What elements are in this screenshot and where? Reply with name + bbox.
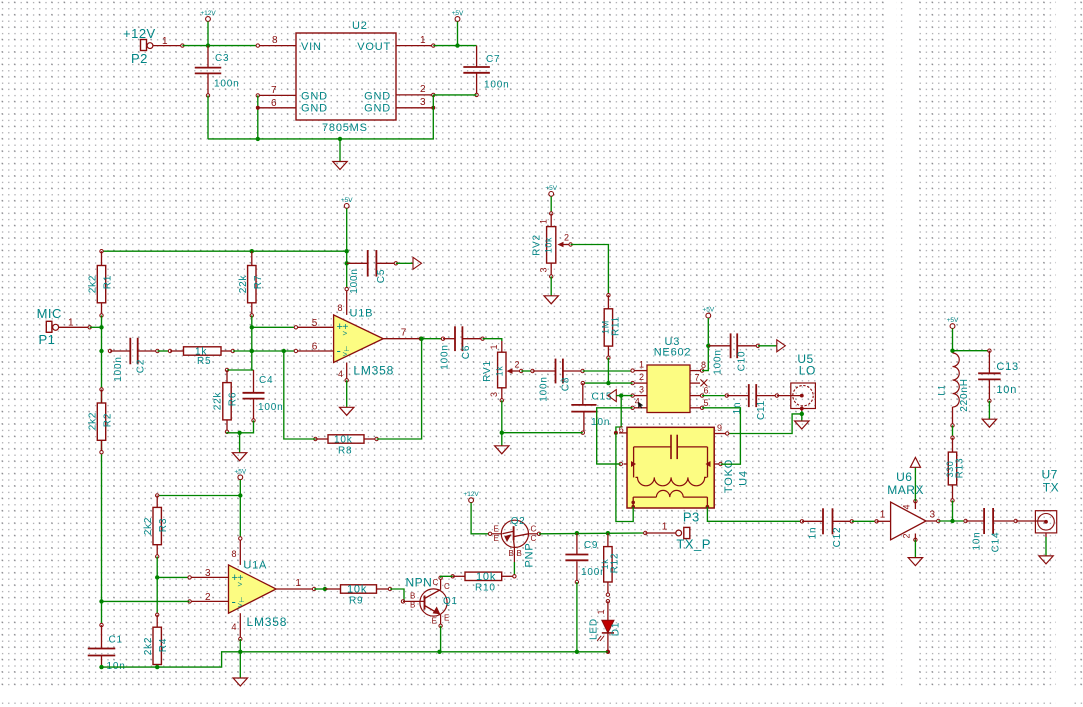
ground — [908, 558, 922, 566]
transformer U4 TOKO — [627, 427, 714, 508]
junction — [575, 531, 579, 535]
junction — [950, 519, 954, 523]
ground — [544, 296, 558, 304]
power arrow (U6 pin4) — [914, 467, 916, 501]
svg-text:3: 3 — [420, 97, 426, 108]
svg-text:R4: R4 — [158, 638, 169, 652]
wire — [914, 540, 916, 558]
wire — [952, 425, 954, 437]
wire — [346, 380, 348, 407]
wire — [157, 576, 189, 578]
svg-text:7: 7 — [695, 373, 700, 383]
junction — [606, 650, 610, 654]
pin 8 — [239, 539, 241, 565]
svg-text:LO: LO — [799, 364, 816, 378]
capacitor C1 10n — [100, 623, 103, 626]
resistor R12 1k — [607, 533, 609, 546]
wire — [616, 396, 621, 433]
pin 5 — [296, 326, 334, 328]
capacitor C5 100n — [347, 262, 368, 264]
wire — [607, 358, 609, 383]
svg-text:100n: 100n — [440, 344, 451, 369]
svg-text:C3: C3 — [215, 53, 229, 64]
pin 1 VOUT — [396, 45, 433, 47]
svg-text:Q2: Q2 — [511, 516, 526, 527]
power +5V (U3) — [706, 313, 711, 318]
wire — [208, 95, 433, 139]
junction — [250, 349, 254, 353]
svg-text:+5V: +5V — [947, 317, 959, 324]
pin 6 — [296, 350, 334, 352]
svg-text:100n: 100n — [113, 356, 124, 381]
svg-text:GND: GND — [301, 103, 328, 115]
resistor R13 330 — [951, 436, 954, 439]
wire — [182, 45, 257, 47]
junction — [500, 431, 504, 435]
wire — [101, 315, 103, 327]
ground — [333, 162, 347, 170]
svg-text:10k: 10k — [347, 584, 367, 596]
junction — [250, 325, 254, 329]
wire pin1 to pin6 column — [616, 433, 633, 522]
svg-text:>: > — [343, 329, 348, 338]
svg-text:330: 330 — [945, 461, 955, 478]
connector P3 TX_P — [644, 531, 647, 534]
svg-text:C12: C12 — [832, 527, 843, 548]
wire — [501, 433, 503, 446]
wire — [501, 400, 503, 432]
svg-text:1M: 1M — [601, 320, 611, 334]
amplifier U6 MARX — [875, 520, 878, 523]
wire — [852, 520, 877, 522]
svg-text:2: 2 — [205, 592, 211, 603]
wire — [433, 94, 476, 96]
junction — [419, 337, 423, 341]
junction — [606, 531, 610, 535]
wire — [457, 21, 459, 45]
svg-text:2: 2 — [420, 84, 426, 95]
svg-text:6: 6 — [619, 425, 624, 435]
wire — [252, 326, 296, 328]
svg-text:MARX: MARX — [887, 483, 924, 497]
svg-text:10n: 10n — [996, 384, 1017, 396]
svg-text:>: > — [238, 580, 243, 589]
wire +5V to pin8 — [239, 496, 241, 539]
pin 8 — [346, 289, 348, 315]
junction — [282, 349, 286, 353]
junction — [250, 349, 254, 353]
capacitor C11 1n — [702, 395, 727, 397]
svg-text:Q1: Q1 — [443, 596, 458, 607]
wire U7 gnd — [1045, 533, 1047, 537]
resistor R7 22k — [251, 251, 253, 265]
wire — [571, 245, 609, 296]
power +5V — [455, 17, 460, 22]
svg-text:2k2: 2k2 — [88, 412, 99, 431]
svg-text:U7: U7 — [1042, 468, 1058, 482]
svg-text:2k2: 2k2 — [143, 517, 154, 536]
wire — [239, 433, 241, 453]
trimpot RV2 10k — [549, 192, 554, 197]
svg-text:C11: C11 — [756, 400, 767, 420]
svg-text:B: B — [410, 601, 415, 610]
svg-text:2: 2 — [902, 533, 912, 538]
svg-text:1: 1 — [162, 36, 168, 47]
wire emitter — [440, 626, 442, 652]
svg-text:NE602: NE602 — [654, 347, 692, 359]
svg-text:B: B — [509, 549, 514, 558]
svg-text:3: 3 — [639, 385, 644, 395]
svg-text:U6: U6 — [896, 470, 912, 484]
wire Q2 collector — [539, 532, 645, 535]
svg-text:6: 6 — [271, 98, 277, 109]
wire top rail — [102, 250, 347, 252]
wire — [952, 329, 954, 354]
capacitor C15 10n — [581, 381, 584, 384]
junction — [99, 665, 103, 669]
capacitor C9 100n — [576, 533, 578, 554]
ground — [233, 678, 247, 686]
ground — [1039, 556, 1053, 564]
svg-text:+5V: +5V — [234, 468, 246, 475]
junction — [155, 665, 159, 669]
svg-text:C: C — [444, 582, 450, 591]
junction — [238, 493, 242, 497]
svg-text:10k: 10k — [334, 435, 353, 446]
pin 2 — [633, 382, 647, 384]
ground — [495, 446, 509, 454]
capacitor C2 100n — [108, 349, 111, 352]
svg-text:+5V: +5V — [452, 10, 464, 17]
wire bottom rail — [102, 652, 608, 667]
svg-text:1: 1 — [880, 510, 886, 521]
svg-text:220nH: 220nH — [959, 378, 970, 411]
resistor R1 2k2 — [100, 250, 103, 253]
wire — [251, 315, 253, 327]
wire — [758, 345, 777, 347]
hier label arrow — [777, 340, 786, 352]
wire U5 to U4 pin9 — [727, 414, 802, 434]
ground — [340, 407, 354, 415]
svg-text:R13: R13 — [955, 458, 966, 479]
wire — [502, 432, 583, 434]
power +5V (U1B) — [344, 204, 349, 209]
resistor R8 10k — [314, 437, 317, 440]
ground — [232, 453, 246, 461]
svg-text:+12V: +12V — [200, 10, 216, 17]
wire — [390, 589, 404, 601]
hier label arrow — [413, 257, 422, 269]
pin 6 — [690, 395, 702, 397]
wire pin4 to U4 pin5 — [597, 408, 633, 464]
pin 2 GND — [396, 94, 433, 96]
transistor Q1 NPN — [401, 600, 404, 603]
svg-text:8: 8 — [272, 35, 278, 46]
power +5V (L1) — [950, 324, 955, 329]
svg-text:4: 4 — [902, 504, 912, 509]
wire — [938, 520, 965, 522]
svg-text:2k2: 2k2 — [143, 637, 154, 656]
svg-text:U1A: U1A — [243, 560, 267, 572]
wire output U1A to R9 — [314, 588, 328, 590]
svg-text:8: 8 — [338, 303, 343, 313]
capacitor C14 10n — [964, 519, 967, 522]
svg-text:R8: R8 — [338, 446, 352, 457]
svg-text:LM358: LM358 — [247, 615, 288, 629]
svg-text:TX_P: TX_P — [676, 537, 711, 552]
pin 2 of U4 — [706, 497, 708, 507]
wire — [157, 350, 170, 352]
resistor R4 2k2 — [156, 613, 159, 616]
capacitor C3 100n — [207, 46, 209, 68]
pin 7 of U4 — [714, 463, 720, 465]
resistor R11 1M — [607, 294, 610, 297]
resistor R10 10k — [451, 575, 454, 578]
pin 4 — [239, 613, 241, 639]
svg-text:R7: R7 — [253, 275, 264, 289]
pin 2 — [190, 600, 229, 602]
junction — [99, 349, 103, 353]
svg-text:VOUT: VOUT — [357, 41, 391, 53]
connector U7 TX — [1016, 520, 1046, 522]
svg-text:R2: R2 — [103, 413, 114, 427]
svg-text:C: C — [531, 525, 537, 534]
pin 9 of U4 — [714, 433, 727, 435]
svg-text:R1: R1 — [103, 275, 114, 289]
wire output — [421, 338, 443, 340]
junction — [575, 650, 579, 654]
wire pin2 down-right — [707, 507, 802, 522]
wire U3 pin5 to U4 pin7 — [702, 408, 740, 464]
pin 3 — [190, 576, 229, 578]
ground — [795, 421, 809, 429]
transistor Q2 PNP — [501, 520, 528, 547]
junction — [345, 261, 349, 265]
svg-text:7: 7 — [401, 328, 407, 339]
pin 7 output — [383, 338, 421, 340]
wire — [156, 557, 158, 615]
pin 5 — [690, 407, 702, 409]
junction — [237, 431, 241, 435]
capacitor C12 1n — [800, 520, 803, 523]
svg-text:10k: 10k — [476, 571, 496, 583]
svg-text:R3: R3 — [158, 518, 169, 532]
wire collector — [441, 576, 453, 577]
resistor R9 10k — [325, 588, 341, 590]
svg-text:LED: LED — [589, 618, 600, 640]
op-amp U1A LM358 — [229, 565, 277, 613]
pin 5 of U4 — [624, 463, 628, 465]
svg-text:1: 1 — [662, 522, 668, 533]
pin 7 no-connect — [690, 382, 700, 384]
capacitor C6 100n — [441, 337, 444, 340]
wire — [233, 350, 296, 352]
svg-text:C9: C9 — [584, 540, 598, 551]
power +5V (U1A) — [238, 475, 243, 480]
svg-text:R9: R9 — [349, 596, 363, 607]
op-amp U1B LM358 — [334, 315, 384, 363]
junction — [950, 349, 954, 353]
junction — [437, 650, 441, 654]
svg-text:E: E — [494, 534, 499, 543]
wire — [239, 480, 241, 496]
svg-text:+12V: +12V — [123, 26, 156, 41]
wire — [702, 318, 708, 371]
pin 3 output — [926, 520, 938, 522]
wire — [346, 208, 348, 289]
pin 8 VIN — [258, 45, 296, 47]
svg-text:R5: R5 — [197, 356, 211, 367]
svg-text:U2: U2 — [352, 20, 368, 32]
svg-text:1n: 1n — [808, 527, 819, 540]
svg-text:10n: 10n — [972, 531, 983, 550]
svg-text:+5V: +5V — [545, 185, 557, 192]
wire left column — [101, 327, 103, 625]
svg-text:C6: C6 — [461, 345, 472, 359]
junction — [238, 650, 242, 654]
capacitor C7 100n — [476, 46, 478, 67]
pin 4 — [633, 407, 647, 409]
svg-text:2: 2 — [515, 360, 520, 370]
wire — [550, 276, 552, 295]
junction — [345, 249, 349, 253]
svg-text:C: C — [433, 578, 439, 587]
junction — [250, 249, 254, 253]
wire pin3 — [616, 395, 632, 397]
svg-text:>: > — [238, 601, 243, 610]
svg-text:C2: C2 — [136, 359, 147, 373]
junction — [455, 43, 459, 47]
wire — [988, 401, 990, 419]
svg-text:4: 4 — [232, 622, 237, 632]
junction — [706, 344, 710, 348]
wire — [90, 326, 102, 328]
svg-text:9: 9 — [717, 423, 722, 433]
svg-text:3: 3 — [205, 568, 211, 579]
wire — [576, 582, 578, 652]
svg-text:LM358: LM358 — [353, 364, 394, 378]
junction — [206, 43, 210, 47]
wire base — [513, 562, 515, 576]
wire — [207, 95, 209, 138]
wire — [157, 495, 240, 497]
wire feedback right — [377, 339, 422, 439]
svg-text:5: 5 — [704, 398, 709, 408]
svg-text:2: 2 — [564, 233, 569, 243]
wire — [227, 420, 254, 432]
wire — [583, 370, 633, 372]
resistor R5 1k — [168, 349, 171, 352]
svg-text:100n: 100n — [258, 402, 283, 413]
svg-text:E: E — [444, 614, 449, 623]
capacitor C4 100n — [253, 370, 255, 393]
svg-text:1: 1 — [596, 609, 606, 614]
mixer U3 NE602 — [647, 365, 690, 413]
pin 3 GND — [396, 107, 433, 109]
capacitor C8 100n — [531, 369, 534, 372]
pin 2 of U6 — [914, 538, 917, 541]
junction — [800, 412, 804, 416]
svg-text:R11: R11 — [611, 316, 622, 336]
junction — [338, 137, 342, 141]
svg-text:8: 8 — [701, 360, 706, 370]
svg-text:10n: 10n — [591, 417, 610, 428]
svg-text:C10: C10 — [737, 351, 748, 372]
svg-text:B: B — [410, 592, 415, 601]
junction — [99, 599, 103, 603]
wire — [252, 327, 254, 370]
svg-text:C5: C5 — [376, 269, 387, 283]
svg-text:1: 1 — [539, 219, 549, 224]
svg-text:R6: R6 — [228, 392, 239, 406]
svg-text:3: 3 — [489, 392, 499, 397]
svg-text:NPN: NPN — [406, 576, 433, 590]
wire — [433, 45, 476, 47]
hier label arrow — [608, 390, 617, 402]
svg-text:GND: GND — [364, 91, 391, 103]
svg-text:2k2: 2k2 — [88, 275, 99, 294]
LED D1 — [606, 600, 609, 603]
inductor L1 220nH — [953, 353, 960, 407]
svg-text:100n: 100n — [349, 268, 360, 293]
svg-text:1: 1 — [639, 360, 644, 370]
wire — [339, 139, 341, 162]
ground — [982, 419, 996, 427]
pin 1 — [633, 370, 647, 372]
svg-text:P2: P2 — [131, 51, 148, 66]
svg-text:3: 3 — [930, 510, 936, 521]
pin 7 GND — [258, 94, 296, 96]
connector U5 LO — [777, 395, 802, 397]
svg-text:100n: 100n — [539, 376, 550, 401]
wire — [239, 652, 241, 678]
wire pin5 left (gnd column) — [597, 463, 621, 465]
svg-text:2: 2 — [639, 372, 644, 382]
wire — [952, 501, 954, 522]
svg-text:+12V: +12V — [463, 491, 479, 498]
svg-text:R12: R12 — [610, 553, 621, 574]
wire to C13 — [953, 350, 990, 352]
svg-text:+5V: +5V — [341, 197, 353, 204]
pin 6 GND — [258, 107, 296, 109]
svg-text:RV1: RV1 — [482, 360, 493, 382]
svg-text:C1: C1 — [109, 635, 123, 646]
svg-text:P1: P1 — [39, 332, 56, 347]
svg-text:6: 6 — [704, 386, 709, 396]
wire — [102, 600, 190, 602]
svg-text:>: > — [343, 350, 348, 359]
svg-text:C8: C8 — [561, 377, 572, 391]
svg-text:4: 4 — [338, 369, 343, 379]
svg-text:7805MS: 7805MS — [322, 122, 368, 134]
svg-text:L1: L1 — [937, 384, 947, 395]
pin 4 of U6 — [914, 500, 917, 503]
wire — [396, 262, 413, 264]
wire — [471, 503, 490, 534]
svg-text:1: 1 — [68, 318, 74, 329]
junction — [619, 393, 623, 397]
svg-text:TX: TX — [1043, 481, 1059, 495]
wire — [257, 95, 259, 138]
svg-text:C7: C7 — [486, 54, 500, 65]
svg-text:3: 3 — [539, 267, 549, 272]
junction — [606, 381, 610, 385]
svg-text:U4: U4 — [738, 470, 750, 486]
svg-text:C14: C14 — [991, 532, 1002, 553]
svg-text:-: - — [232, 594, 236, 609]
pin 6 of U4 — [619, 432, 627, 434]
svg-text:VIN: VIN — [301, 41, 322, 53]
